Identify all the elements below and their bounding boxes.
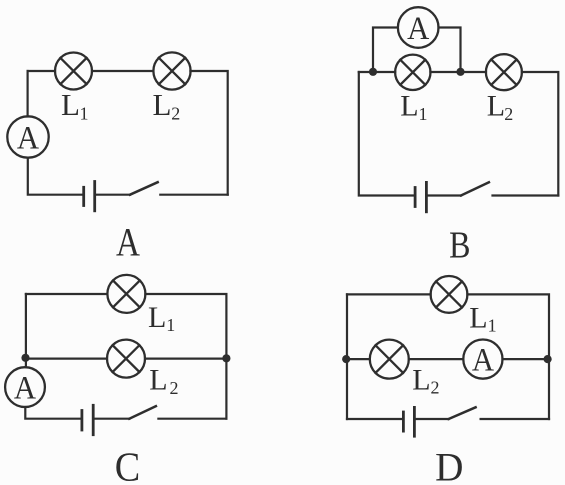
wire A top-middle segment <box>92 70 153 72</box>
wire B top-right segment <box>522 72 558 196</box>
wire A left lower <box>28 158 84 195</box>
svg-text:C: C <box>115 443 140 485</box>
switch (circuit C) <box>129 406 156 419</box>
lamp L1 (circuit D) <box>431 276 468 313</box>
wire C bottom middle <box>93 418 129 420</box>
svg-text:L: L <box>400 89 418 122</box>
wire B bottom middle <box>426 194 461 196</box>
lamp L2 (circuit C) <box>107 340 145 378</box>
node right junction (circuit D) <box>544 355 552 363</box>
svg-text:1: 1 <box>488 316 497 336</box>
node right junction (circuit C) <box>222 354 230 362</box>
wire A top-left segment <box>28 70 55 72</box>
svg-text:A: A <box>407 10 429 46</box>
svg-text:2: 2 <box>431 378 440 398</box>
wire B left edge <box>359 72 415 196</box>
wire D bottom left <box>347 418 403 420</box>
lamp L1 (circuit C) <box>107 275 145 313</box>
wire A top-right segment <box>190 71 227 195</box>
battery (circuit B) <box>415 182 426 211</box>
battery (circuit D) <box>403 407 414 436</box>
ammeter A (circuit C) <box>5 367 45 407</box>
svg-text:2: 2 <box>171 104 180 124</box>
lamp L1 <box>55 53 92 90</box>
ammeter A <box>7 116 48 157</box>
switch (circuit B) <box>461 182 489 195</box>
wire D bottom right <box>481 418 549 420</box>
svg-text:D: D <box>435 445 463 485</box>
node left junction (circuit C) <box>21 354 29 362</box>
svg-text:A: A <box>14 369 36 405</box>
wire B top-left segment <box>359 71 395 73</box>
svg-text:L: L <box>61 87 80 122</box>
wire C top-left segment <box>26 293 108 295</box>
battery (circuit A) <box>84 182 95 211</box>
lamp L2 (circuit B) <box>486 54 522 90</box>
battery (circuit C) <box>82 405 93 434</box>
svg-text:A: A <box>17 119 39 155</box>
wire C bottom right <box>158 418 226 420</box>
wire B ammeter branch left <box>373 28 398 72</box>
node left junction (circuit D) <box>342 355 350 363</box>
svg-text:L: L <box>469 302 487 335</box>
svg-text:2: 2 <box>504 104 513 124</box>
ammeter A (circuit B) <box>398 7 439 48</box>
wire B ammeter branch right <box>439 28 461 72</box>
svg-text:L: L <box>148 301 166 334</box>
wire A left upper <box>27 71 29 117</box>
wire D middle-right segment <box>503 358 550 360</box>
node right junction (circuit B) <box>456 68 464 76</box>
svg-text:L: L <box>412 363 430 396</box>
wire D bottom middle <box>414 418 448 420</box>
node left junction (circuit B) <box>369 68 377 76</box>
switch (circuit D) <box>449 407 476 419</box>
svg-text:L: L <box>487 89 505 122</box>
wire C middle-right segment <box>145 358 226 360</box>
lamp L1 (circuit B) <box>395 55 430 90</box>
wire C ammeter to bottom <box>25 407 82 419</box>
svg-text:A: A <box>472 341 494 377</box>
wire C middle-left segment <box>26 358 108 360</box>
wire A bottom right <box>160 194 227 196</box>
ammeter A (circuit D) <box>463 340 502 379</box>
svg-text:L: L <box>153 87 172 122</box>
svg-text:A: A <box>116 220 140 265</box>
svg-text:2: 2 <box>170 378 179 398</box>
wire D middle-center segment <box>409 358 464 360</box>
svg-text:1: 1 <box>80 104 89 124</box>
wire D middle-left segment <box>347 358 370 360</box>
wire B bottom right <box>493 194 559 196</box>
lamp L2 <box>153 52 190 89</box>
wire B top-middle segment <box>430 71 486 73</box>
wire D left edge <box>346 294 348 419</box>
switch (circuit A) <box>130 182 158 195</box>
svg-text:1: 1 <box>419 104 428 124</box>
wire D top-left segment <box>347 293 431 295</box>
wire C left edge upper <box>25 294 27 367</box>
wire C top-right segment <box>145 294 226 419</box>
wire A bottom middle <box>95 194 130 196</box>
wire D top-right segment <box>467 294 549 419</box>
svg-text:B: B <box>449 223 470 267</box>
svg-text:L: L <box>149 364 167 397</box>
lamp L2 (circuit D) <box>370 340 409 379</box>
svg-text:1: 1 <box>166 315 175 335</box>
